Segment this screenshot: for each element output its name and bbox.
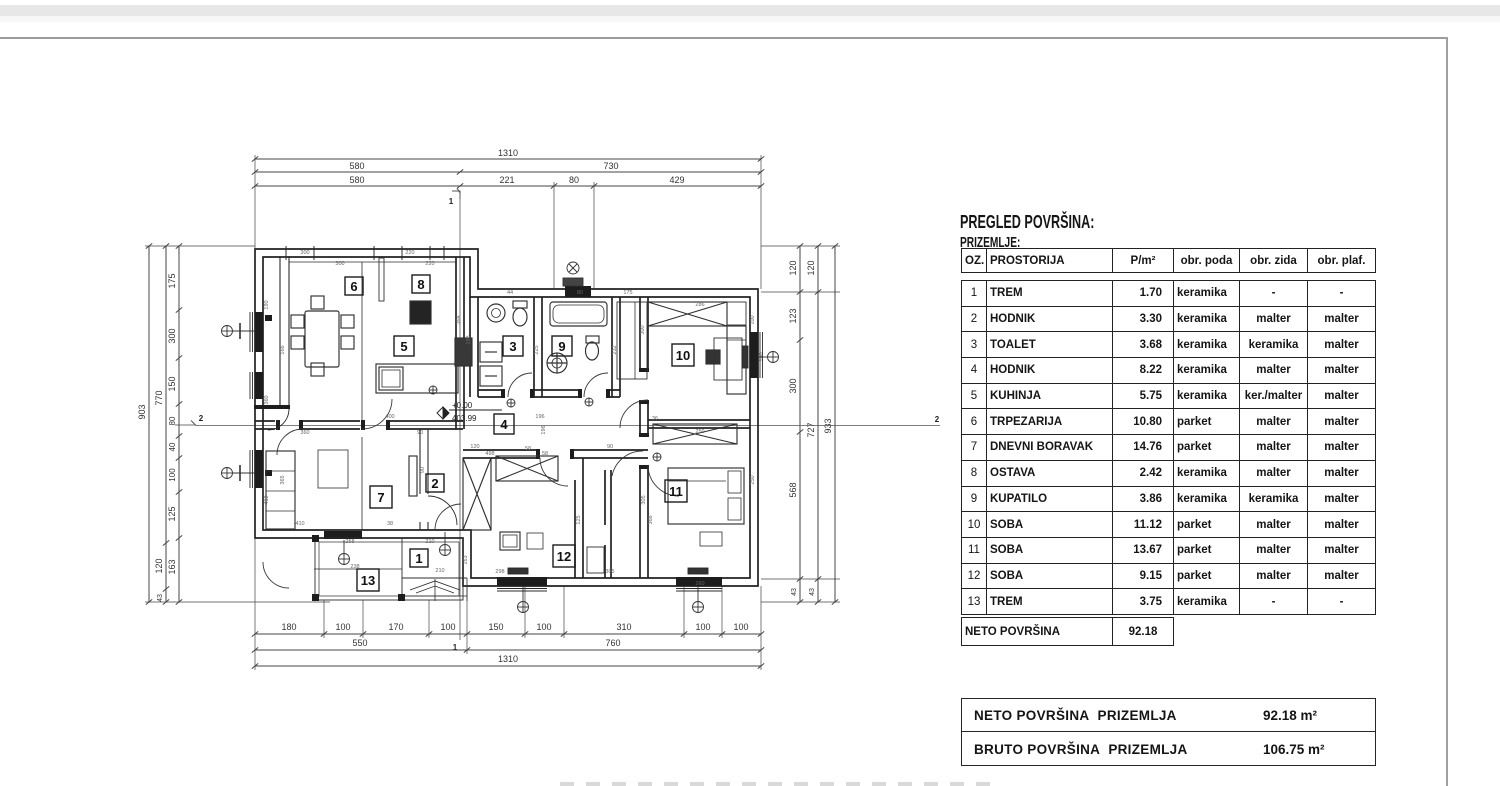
svg-text:1: 1 (453, 643, 458, 652)
svg-text:365: 365 (280, 475, 286, 484)
svg-text:123: 123 (788, 308, 798, 323)
svg-text:730: 730 (603, 161, 618, 171)
svg-text:36: 36 (652, 416, 658, 422)
svg-text:10: 10 (676, 348, 690, 363)
svg-text:44: 44 (507, 290, 513, 296)
svg-text:43: 43 (791, 588, 798, 596)
svg-text:364: 364 (456, 315, 462, 324)
svg-text:300: 300 (335, 261, 344, 267)
svg-text:40: 40 (168, 442, 177, 451)
svg-text:9: 9 (558, 339, 565, 354)
svg-text:3: 3 (509, 339, 516, 354)
svg-text:8: 8 (417, 277, 424, 292)
svg-text:368: 368 (648, 515, 654, 524)
svg-text:13: 13 (361, 573, 375, 588)
svg-text:2: 2 (935, 415, 940, 424)
svg-text:5: 5 (400, 339, 407, 354)
svg-text:2: 2 (199, 414, 204, 423)
svg-text:12: 12 (557, 549, 571, 564)
svg-text:403.99: 403.99 (452, 414, 477, 423)
svg-text:360: 360 (300, 430, 309, 436)
svg-text:429: 429 (669, 175, 684, 185)
svg-text:210: 210 (425, 539, 434, 545)
svg-text:43: 43 (809, 588, 816, 596)
svg-text:300: 300 (640, 325, 646, 334)
svg-text:80: 80 (577, 290, 583, 296)
svg-text:298: 298 (495, 569, 504, 575)
svg-text:727: 727 (806, 422, 816, 437)
svg-text:150: 150 (488, 622, 503, 632)
svg-text:250: 250 (750, 475, 756, 484)
svg-text:150: 150 (167, 376, 177, 391)
svg-text:196: 196 (541, 425, 547, 434)
svg-text:221: 221 (499, 175, 514, 185)
svg-text:180: 180 (281, 622, 296, 632)
svg-text:300: 300 (167, 328, 177, 343)
svg-text:11: 11 (669, 484, 683, 499)
svg-text:166: 166 (280, 345, 286, 354)
svg-text:305: 305 (605, 569, 614, 575)
svg-text:163: 163 (167, 559, 177, 574)
svg-text:125: 125 (167, 506, 177, 521)
svg-text:1310: 1310 (498, 148, 518, 158)
svg-text:568: 568 (788, 482, 798, 497)
svg-text:90: 90 (607, 444, 613, 450)
svg-text:360: 360 (264, 395, 270, 404)
svg-text:43: 43 (157, 594, 164, 602)
svg-text:100: 100 (750, 315, 756, 324)
svg-text:400: 400 (385, 414, 394, 420)
svg-text:120: 120 (788, 260, 798, 275)
svg-text:305: 305 (641, 495, 647, 504)
svg-text:210: 210 (435, 568, 444, 574)
svg-text:90: 90 (420, 467, 426, 473)
svg-text:250: 250 (695, 429, 704, 435)
svg-text:310: 310 (616, 622, 631, 632)
svg-text:163: 163 (463, 555, 469, 564)
svg-text:760: 760 (605, 638, 620, 648)
svg-text:260: 260 (695, 581, 704, 587)
svg-text:100: 100 (168, 468, 177, 482)
svg-text:258: 258 (345, 539, 354, 545)
svg-text:7: 7 (377, 490, 384, 505)
svg-text:125: 125 (576, 515, 582, 524)
svg-text:100: 100 (335, 622, 350, 632)
svg-text:175: 175 (623, 290, 632, 296)
svg-text:410: 410 (264, 495, 270, 504)
svg-text:+0.00: +0.00 (452, 401, 473, 410)
svg-text:58: 58 (542, 451, 548, 457)
svg-text:120: 120 (154, 558, 164, 573)
svg-text:220: 220 (405, 250, 414, 256)
svg-text:286: 286 (695, 302, 704, 308)
svg-text:100: 100 (536, 622, 551, 632)
svg-text:933: 933 (823, 418, 833, 433)
svg-text:80: 80 (168, 416, 177, 425)
svg-text:903: 903 (137, 404, 147, 419)
svg-text:1: 1 (415, 551, 422, 566)
svg-text:232: 232 (612, 345, 618, 354)
svg-text:100: 100 (440, 622, 455, 632)
svg-text:6: 6 (350, 279, 357, 294)
svg-text:100: 100 (695, 622, 710, 632)
svg-text:120: 120 (470, 444, 479, 450)
svg-text:90: 90 (417, 430, 423, 436)
svg-text:770: 770 (154, 390, 164, 405)
svg-text:100: 100 (733, 622, 748, 632)
svg-text:410: 410 (295, 521, 304, 527)
svg-text:120: 120 (806, 260, 816, 275)
svg-text:300: 300 (300, 250, 309, 256)
svg-text:198: 198 (466, 335, 472, 344)
svg-text:38: 38 (387, 521, 393, 527)
svg-text:80: 80 (569, 175, 579, 185)
svg-text:238: 238 (350, 564, 359, 570)
svg-text:2: 2 (431, 476, 438, 491)
svg-text:175: 175 (167, 273, 177, 288)
svg-text:58: 58 (525, 446, 531, 452)
svg-text:196: 196 (535, 414, 544, 420)
svg-text:1: 1 (449, 197, 454, 206)
svg-text:300: 300 (788, 378, 798, 393)
svg-text:225: 225 (534, 345, 540, 354)
svg-text:550: 550 (352, 638, 367, 648)
svg-text:580: 580 (349, 161, 364, 171)
svg-text:4: 4 (500, 417, 508, 432)
svg-text:1310: 1310 (498, 654, 518, 664)
svg-text:580: 580 (349, 175, 364, 185)
svg-text:170: 170 (388, 622, 403, 632)
svg-text:498: 498 (485, 451, 494, 457)
svg-text:190: 190 (264, 300, 270, 309)
svg-text:220: 220 (425, 261, 434, 267)
